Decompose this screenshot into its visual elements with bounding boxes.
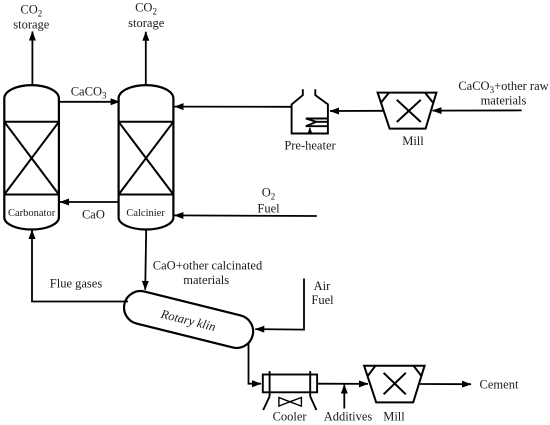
wire CO2 to storage from Calcinier <box>145 32 147 86</box>
svg-text:CaCO3: CaCO3 <box>71 85 107 101</box>
vessel Carbonator <box>4 85 59 229</box>
wire Calcinier to rotary kiln <box>145 230 146 290</box>
wire cooler to mill M2 <box>317 383 368 385</box>
svg-text:CO2: CO2 <box>135 1 157 17</box>
wire additives <box>343 385 345 409</box>
wire flue gases kiln to Carbonator <box>32 230 128 302</box>
svg-text:Additives: Additives <box>324 410 373 424</box>
svg-text:Fuel: Fuel <box>257 201 280 215</box>
svg-text:Cement: Cement <box>480 378 519 392</box>
svg-text:Fuel: Fuel <box>311 293 334 307</box>
svg-text:storage: storage <box>13 18 50 32</box>
svg-text:Mill: Mill <box>402 134 424 148</box>
wire Air Fuel into kiln <box>255 279 304 330</box>
vessel Calcinier <box>119 85 174 229</box>
wire CaO Calcinier to Carbonator <box>60 201 119 203</box>
svg-text:materials: materials <box>481 94 527 108</box>
svg-text:CO2: CO2 <box>20 3 42 19</box>
label CaO+other calcinated materials <box>153 259 263 288</box>
wire CO2 to storage from Carbonator <box>31 32 33 86</box>
svg-text:Flue gases: Flue gases <box>50 277 103 291</box>
wire pre-heater to Calcinier <box>175 106 292 108</box>
wire CaCO3 Carbonator to Calcinier <box>59 101 120 103</box>
svg-text:CaO: CaO <box>82 208 105 222</box>
mill M2 (bottom) <box>364 366 425 403</box>
cooler fan <box>279 398 302 407</box>
svg-text:Cooler: Cooler <box>273 410 308 424</box>
wire raw materials into mill M1 <box>433 109 522 111</box>
mill M1 (top) <box>378 93 437 129</box>
pre-heater internal up arrow <box>309 128 311 134</box>
cooler <box>263 371 317 410</box>
svg-text:materials: materials <box>183 273 229 287</box>
label CO2 storage right <box>128 1 165 31</box>
wire O2 Fuel into Calcinier <box>174 214 316 217</box>
rotary kiln <box>121 288 257 352</box>
svg-text:storage: storage <box>128 16 165 30</box>
svg-text:Mill: Mill <box>383 410 405 424</box>
svg-text:O2: O2 <box>262 186 276 202</box>
wire mill M2 to cement <box>420 383 471 385</box>
wire mill M1 to pre-heater <box>330 110 384 112</box>
svg-text:Air: Air <box>314 279 332 293</box>
svg-text:Pre-heater: Pre-heater <box>284 139 336 153</box>
label Air Fuel <box>311 279 334 307</box>
label CO2 storage left <box>13 3 50 32</box>
svg-text:CaO+other calcinated: CaO+other calcinated <box>153 259 263 273</box>
label O2 Fuel <box>257 186 280 216</box>
svg-text:Rotary klin: Rotary klin <box>159 307 218 334</box>
wire kiln to cooler <box>249 342 262 384</box>
pre-heater vessel <box>292 89 328 133</box>
svg-text:Calcinier: Calcinier <box>126 208 165 219</box>
label CaCO3+other raw materials <box>458 79 548 108</box>
svg-text:Carbonator: Carbonator <box>8 208 56 219</box>
